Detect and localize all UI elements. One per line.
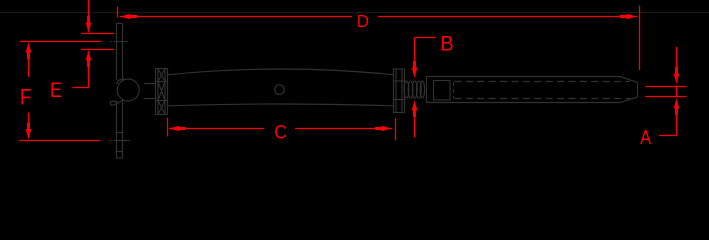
svg-text:B: B (440, 32, 453, 56)
svg-text:D: D (357, 11, 369, 31)
svg-text:E: E (50, 79, 62, 103)
svg-text:F: F (20, 85, 32, 110)
svg-text:A: A (640, 125, 651, 148)
svg-text:C: C (274, 121, 287, 143)
